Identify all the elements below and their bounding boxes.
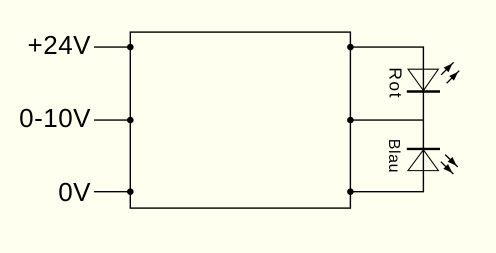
net label 0V xyxy=(0,179,91,205)
LED D1 emission arrow b xyxy=(447,71,460,84)
LED D1 Rot triangle xyxy=(408,69,438,90)
wire right middle xyxy=(350,119,423,121)
LED D1 Rot cathode bar xyxy=(407,90,440,92)
junction dot right 0-10V xyxy=(347,117,354,124)
LED D2 Blau triangle xyxy=(408,150,438,171)
LED D2 emission arrow a xyxy=(445,155,458,167)
wire +24V left xyxy=(94,46,130,48)
wire right top to LED1 xyxy=(350,47,423,91)
LED D2 Blau cathode bar xyxy=(407,148,440,150)
controller box U1 xyxy=(130,32,350,208)
junction dot left 0-10V xyxy=(127,117,134,124)
wire 0-10V left xyxy=(94,119,130,121)
LED D2 lead from middle wire xyxy=(422,120,424,149)
LED D1 lead to middle wire xyxy=(422,92,424,121)
net label +24V xyxy=(0,32,91,58)
junction dot right 0V xyxy=(347,188,354,195)
svg-text:Rot: Rot xyxy=(385,67,405,99)
net label 0-10V xyxy=(0,105,91,131)
junction dot left +24V xyxy=(127,44,134,51)
wire right bottom from LED2 xyxy=(350,149,423,192)
junction dot left 0V xyxy=(127,188,134,195)
wire 0V left xyxy=(94,191,130,193)
svg-text:Blau: Blau xyxy=(385,139,402,173)
LED D1 emission arrow a xyxy=(441,62,453,75)
LED D2 emission arrow b xyxy=(441,162,454,174)
junction dot right +24V xyxy=(347,44,354,51)
